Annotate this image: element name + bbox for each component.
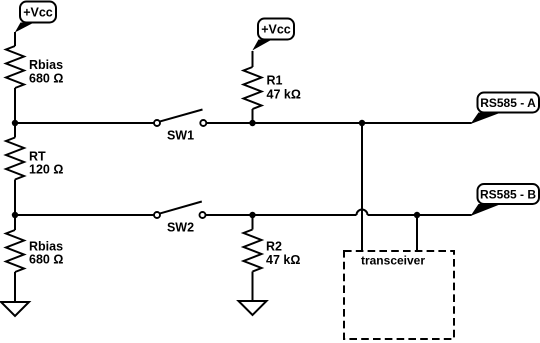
node: R1 / A row junction xyxy=(249,120,255,126)
net flag RS585 - B xyxy=(471,184,540,216)
ground (left) xyxy=(1,302,29,316)
label RT 120 Ω xyxy=(29,150,63,177)
svg-text:RS585 - B: RS585 - B xyxy=(480,188,536,202)
ground (under R2) xyxy=(239,301,267,315)
power flag +Vcc (center) xyxy=(252,19,294,51)
wire: node B-left to SW2 xyxy=(15,214,154,216)
wire: Rbias bottom to node A-left xyxy=(14,88,16,123)
svg-text:47 kΩ: 47 kΩ xyxy=(267,88,301,102)
resistor RT xyxy=(6,123,24,215)
svg-text:47 kΩ: 47 kΩ xyxy=(266,253,300,267)
switch SW2 xyxy=(154,202,206,235)
transceiver dashed box xyxy=(344,251,454,339)
label Rbias 680 Ω (bottom) xyxy=(29,240,63,267)
label Rbias 680 Ω xyxy=(29,58,63,86)
svg-text:RS585 - A: RS585 - A xyxy=(480,96,536,110)
resistor R2 xyxy=(244,215,262,301)
net flag RS585 - A xyxy=(471,93,540,125)
switch SW1 xyxy=(154,110,206,143)
wire: hop to RS485-B flag xyxy=(368,214,472,216)
wire: A net vertical drop to transceiver xyxy=(361,123,363,251)
label R1 47 kΩ xyxy=(267,74,301,102)
label R2 47 kΩ xyxy=(266,240,300,268)
svg-text:SW1: SW1 xyxy=(167,129,194,143)
node: left rail / RS485-B row junction xyxy=(12,212,18,218)
svg-text:transceiver: transceiver xyxy=(361,254,425,268)
wire: SW1 to RS485-A flag xyxy=(207,122,472,124)
wire hop over A net xyxy=(357,210,368,215)
wire: SW2 to hop xyxy=(206,214,357,216)
svg-text:SW2: SW2 xyxy=(167,221,194,235)
svg-text:+Vcc: +Vcc xyxy=(261,23,291,37)
svg-text:120 Ω: 120 Ω xyxy=(29,163,63,177)
node: R2 / B row junction xyxy=(249,212,255,218)
wire: +Vcc flag to Rbias top xyxy=(14,32,16,46)
svg-text:Rbias: Rbias xyxy=(29,58,63,72)
resistor Rbias (bottom left) xyxy=(6,215,24,302)
node: left rail / RS485-A row junction xyxy=(12,120,18,126)
resistor R1 xyxy=(244,51,262,123)
node: B row / transceiver drop junction xyxy=(414,212,420,218)
wire: node A-left to SW1 xyxy=(15,122,154,124)
resistor Rbias (top left) xyxy=(6,46,24,88)
svg-text:Rbias: Rbias xyxy=(29,240,63,254)
svg-text:680 Ω: 680 Ω xyxy=(29,253,63,267)
svg-text:RT: RT xyxy=(29,150,46,164)
svg-text:680 Ω: 680 Ω xyxy=(29,72,63,86)
node: A row / transceiver drop junction xyxy=(359,120,365,126)
power flag +Vcc (left) xyxy=(15,2,56,33)
wire: B net vertical drop to transceiver xyxy=(416,215,418,251)
svg-text:R1: R1 xyxy=(267,74,283,88)
svg-text:R2: R2 xyxy=(266,240,282,254)
svg-text:+Vcc: +Vcc xyxy=(23,6,53,20)
